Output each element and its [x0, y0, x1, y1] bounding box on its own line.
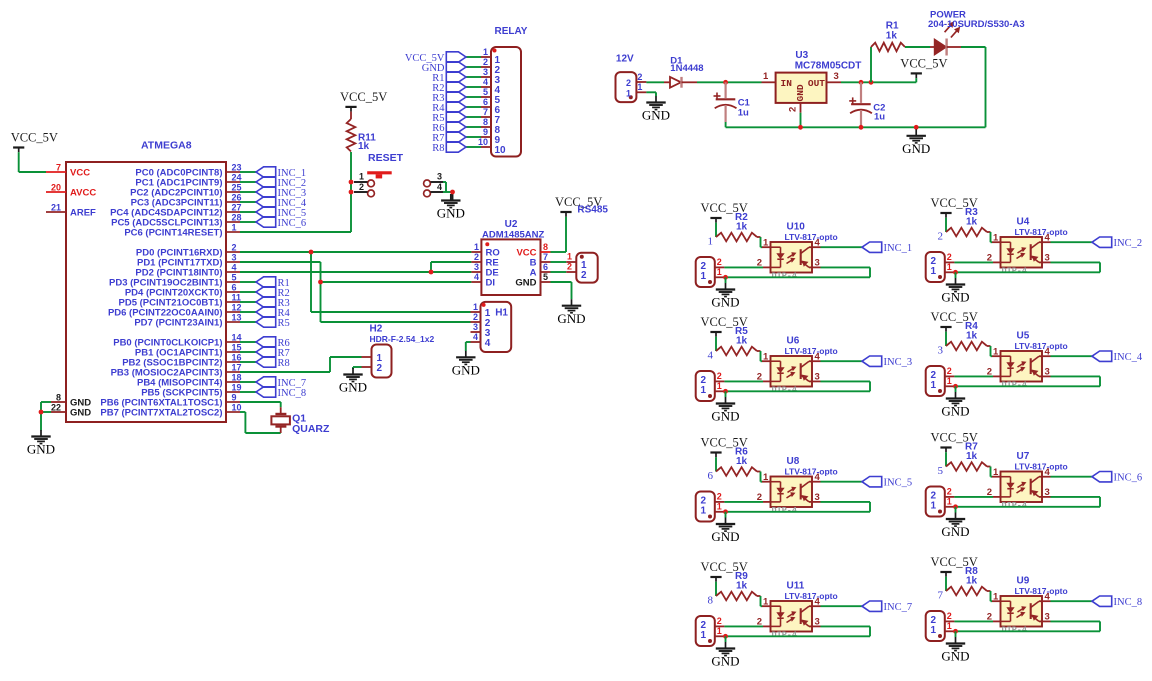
net flag R2: [432, 82, 466, 94]
ground symbol at U4: [941, 278, 969, 305]
svg-text:13: 13: [232, 313, 242, 323]
svg-text:2: 2: [567, 262, 572, 272]
svg-text:GND: GND: [902, 141, 930, 156]
svg-text:GND: GND: [711, 529, 739, 544]
wire net R2 to RELAY pin 4: [466, 86, 481, 88]
svg-text:8: 8: [708, 595, 714, 607]
net flag R8: [256, 357, 290, 369]
pin 23 PC0 of U1: [135, 163, 241, 179]
svg-text:3: 3: [815, 492, 820, 503]
pin 3 of U10: [812, 258, 821, 269]
svg-text:4: 4: [815, 237, 821, 248]
pin 2 RE of U2: [471, 252, 498, 269]
wire net R8 to RELAY pin 10: [466, 146, 481, 148]
pin 4 of H1: [471, 332, 491, 349]
svg-text:3: 3: [1045, 487, 1050, 498]
wire VCC to R3: [945, 218, 947, 232]
wire VCC to R4: [945, 332, 947, 346]
svg-text:MC78M05CDT: MC78M05CDT: [795, 60, 862, 71]
wire U1 to net flag R1: [240, 281, 256, 283]
wire U9 pin4 to net flag INC_8: [1051, 600, 1093, 602]
junction at C2: [859, 80, 864, 85]
svg-text:VCC_5V: VCC_5V: [11, 131, 58, 145]
pin 1 of U8: [762, 472, 771, 483]
svg-text:DIP-4: DIP-4: [772, 630, 798, 640]
net flag R5: [256, 317, 290, 329]
wire net R5 to RELAY pin 7: [466, 116, 481, 118]
svg-text:1k: 1k: [966, 451, 978, 462]
svg-text:GND: GND: [941, 524, 969, 539]
pin 3 of U11: [812, 617, 821, 628]
pin 15 PB1 of U1: [135, 343, 242, 359]
wire R3 to U4 pin1: [991, 232, 993, 242]
wire H1 pin2 branch: [321, 321, 471, 323]
svg-text:3: 3: [1045, 367, 1050, 378]
wire U2 B to RS485 pin1: [551, 261, 567, 263]
svg-text:DIP-4: DIP-4: [772, 385, 798, 395]
pin 7 B of U2: [530, 252, 551, 269]
svg-text:2: 2: [232, 243, 237, 253]
resistor R2 1k: [716, 212, 761, 241]
power flag VCC_5V at R5: [701, 315, 748, 337]
wire U11 pin3 loop: [726, 626, 871, 636]
svg-text:1u: 1u: [738, 107, 749, 118]
optocoupler U9 LTV-817-opto body: [1001, 576, 1068, 636]
svg-text:1k: 1k: [966, 576, 978, 587]
pin 4 of U4: [1042, 232, 1051, 243]
U5 internal LED: [1001, 356, 1014, 376]
wire U1 to net flag INC_3: [240, 191, 256, 193]
U11 light arrows: [787, 612, 796, 623]
svg-text:19: 19: [232, 383, 242, 393]
input connector at U10 body: [696, 257, 715, 287]
pin 1 of input connector at U4: [945, 262, 956, 272]
wire GND pins to ground: [41, 402, 51, 431]
net flag R4: [432, 102, 466, 114]
pin 3 of U8: [812, 492, 821, 503]
svg-text:1: 1: [763, 596, 769, 607]
wire VCC to R5: [715, 337, 717, 351]
svg-text:21: 21: [51, 203, 61, 213]
ground rail wire: [726, 126, 986, 128]
wire PB3 to H2 pin1: [240, 357, 362, 372]
svg-text:11: 11: [232, 293, 242, 303]
junction switch pin 2: [349, 190, 354, 195]
U6 internal LED: [771, 361, 784, 381]
svg-text:17: 17: [232, 363, 242, 373]
pin 1 of input connector at U10: [715, 267, 726, 277]
svg-text:1: 1: [947, 262, 952, 272]
power flag VCC_5V (top left): [11, 131, 58, 153]
junction at U7 ground: [953, 504, 958, 509]
svg-text:1k: 1k: [886, 30, 898, 41]
svg-text:4: 4: [474, 272, 479, 282]
svg-text:4: 4: [437, 182, 442, 192]
svg-text:QUARZ: QUARZ: [292, 423, 330, 435]
svg-text:R8: R8: [278, 358, 290, 369]
wire U1 to net flag R7: [240, 351, 256, 353]
power flag VCC_5V at R7: [931, 431, 978, 453]
svg-text:DIP-4: DIP-4: [1002, 625, 1028, 635]
resistor R4 1k: [946, 321, 991, 350]
svg-text:4: 4: [485, 338, 491, 349]
svg-text:GND: GND: [795, 84, 806, 101]
U11 internal LED: [771, 606, 784, 626]
wire connector pin2 to U6 pin2: [724, 380, 763, 382]
svg-text:7: 7: [483, 107, 488, 117]
pin 10 PB7 of U1: [100, 403, 241, 419]
pin 1 of RS485: [566, 252, 576, 263]
svg-text:8: 8: [543, 242, 548, 252]
wire 12V pin2 to D1: [646, 81, 664, 83]
wire U1 to net flag R2: [240, 291, 256, 293]
svg-text:15: 15: [232, 343, 242, 353]
svg-text:3: 3: [483, 67, 488, 77]
svg-text:1k: 1k: [358, 141, 370, 152]
wire junction to ground at U10: [725, 277, 727, 283]
junction at U9 ground: [953, 629, 958, 634]
resistor R7 1k: [946, 442, 991, 471]
wire junction to ground at U7: [955, 507, 957, 513]
wire PC6/RESET net: [240, 152, 351, 232]
svg-text:ADM1485ANZ: ADM1485ANZ: [482, 230, 544, 241]
pin 2 of input connector at U6: [715, 371, 725, 381]
svg-text:1: 1: [232, 223, 237, 233]
wire connector pin2 to U8 pin2: [724, 501, 763, 503]
pin 1 of U10: [762, 237, 771, 248]
svg-text:10: 10: [232, 403, 242, 413]
pin 3 of U9: [1042, 612, 1051, 623]
svg-text:3: 3: [437, 172, 442, 182]
ground symbol at U11: [711, 642, 739, 669]
svg-text:3: 3: [815, 258, 820, 269]
wire U1 to net flag R4: [240, 311, 256, 313]
pin 1 of U6: [762, 351, 771, 362]
pin 2 of U10: [757, 258, 771, 269]
svg-text:2: 2: [483, 57, 488, 67]
wire junction to ground at U11: [725, 636, 727, 642]
pin 17 PB3 of U1: [111, 363, 242, 379]
svg-text:INC_8: INC_8: [278, 388, 307, 399]
svg-text:GND: GND: [515, 278, 536, 289]
pin 4 of U5: [1042, 346, 1051, 357]
power flag VCC_5V at R2: [701, 201, 748, 223]
junction switch pins 3-4: [450, 190, 455, 195]
svg-text:1: 1: [763, 472, 769, 483]
svg-text:RS485: RS485: [577, 205, 608, 216]
U6 phototransistor: [801, 361, 812, 381]
optocoupler U6 LTV-817-opto body: [771, 336, 838, 396]
wire net R4 to RELAY pin 6: [466, 106, 481, 108]
ground symbol at H2: [339, 368, 367, 395]
wire R6 to U8 pin1: [761, 472, 763, 482]
svg-text:14: 14: [232, 333, 242, 343]
svg-text:2: 2: [788, 107, 799, 112]
pin 27 PC4 of U1: [110, 203, 241, 219]
wire U1 to net flag INC_1: [240, 171, 256, 173]
ground symbol at U9: [941, 637, 969, 664]
svg-text:LTV-817-opto: LTV-817-opto: [785, 466, 838, 476]
U8 phototransistor: [801, 482, 812, 502]
svg-text:4: 4: [1045, 591, 1051, 602]
svg-text:RESET: RESET: [368, 152, 404, 164]
pin 1 RO of U2: [471, 242, 499, 259]
svg-text:3: 3: [1045, 253, 1050, 264]
pin 4 of U7: [1042, 467, 1051, 478]
resistor R11 1k: [347, 112, 377, 152]
junction at U11 ground: [723, 634, 728, 639]
svg-text:2: 2: [947, 611, 952, 621]
input connector at U8 body: [696, 492, 715, 522]
svg-text:GND: GND: [70, 407, 91, 418]
svg-text:2: 2: [581, 270, 587, 281]
svg-text:GND: GND: [437, 206, 465, 221]
svg-text:1k: 1k: [736, 581, 748, 592]
junction DE/RE: [429, 270, 434, 275]
wire U3 OUT to VCC_5V: [841, 81, 916, 83]
svg-text:1: 1: [993, 232, 999, 243]
wire net R7 to RELAY pin 9: [466, 136, 481, 138]
pin 4 of U6: [812, 351, 821, 362]
wire VCC to R6: [715, 457, 717, 471]
svg-text:R8: R8: [432, 143, 444, 154]
junction ground tap at rail: [914, 125, 919, 130]
power flag VCC_5V at R6: [701, 436, 748, 458]
net flag INC_8: [1092, 596, 1142, 608]
diode D1 1N4448: [664, 56, 704, 88]
wire U10 pin3 loop: [726, 267, 871, 277]
pin 26 PC3 of U1: [131, 193, 242, 209]
svg-text:16: 16: [232, 353, 242, 363]
pin 5 GND of U2: [515, 272, 550, 289]
input connector at U6 body: [696, 371, 715, 401]
svg-text:1k: 1k: [736, 456, 748, 467]
U5 light arrows: [1017, 362, 1026, 373]
svg-text:4: 4: [483, 77, 488, 87]
U11 phototransistor: [801, 606, 812, 626]
svg-text:2: 2: [359, 182, 364, 192]
svg-text:24: 24: [232, 173, 242, 183]
svg-text:U2: U2: [505, 219, 518, 230]
svg-text:GND: GND: [711, 409, 739, 424]
pin 6 A of U2: [530, 262, 551, 279]
svg-text:INC_1: INC_1: [884, 243, 913, 254]
svg-text:25: 25: [232, 183, 242, 193]
svg-text:INC_6: INC_6: [1114, 473, 1143, 484]
svg-text:20: 20: [51, 183, 61, 193]
svg-text:1k: 1k: [966, 331, 978, 342]
ground symbol at U2: [557, 299, 585, 326]
wire D1 to U3 IN: [697, 81, 762, 83]
wire U1 to net flag R8: [240, 361, 256, 363]
net flag INC_7: [862, 601, 912, 613]
svg-text:204-10SURD/S530-A3: 204-10SURD/S530-A3: [928, 19, 1025, 30]
pin 3 of H1: [471, 322, 491, 339]
svg-text:8: 8: [483, 117, 488, 127]
svg-text:2: 2: [473, 312, 478, 322]
svg-text:3: 3: [1045, 612, 1050, 623]
pin 2 of H1: [471, 312, 491, 329]
svg-text:10: 10: [478, 137, 488, 147]
input connector at U4 body: [926, 252, 945, 282]
wire U5 pin3 loop: [956, 376, 1101, 386]
svg-text:DIP-4: DIP-4: [772, 271, 798, 281]
svg-text:GND: GND: [941, 404, 969, 419]
net flag R4: [256, 307, 291, 319]
pin 3 of U4: [1042, 253, 1051, 264]
net flag VCC_5V: [405, 52, 466, 64]
U10 light arrows: [787, 253, 796, 264]
wire RE stub from DE: [431, 262, 471, 272]
svg-text:8: 8: [56, 393, 61, 403]
resistor R5 1k: [716, 326, 761, 355]
pin 1 of U7: [992, 467, 1001, 478]
wire connector pin2 to U11 pin2: [724, 625, 763, 627]
svg-text:PD7 (PCINT23AIN1): PD7 (PCINT23AIN1): [134, 317, 222, 328]
svg-text:2: 2: [626, 78, 631, 88]
ground symbol at U8: [711, 518, 739, 545]
svg-text:7: 7: [56, 163, 61, 173]
U5 phototransistor: [1031, 356, 1042, 376]
svg-text:1: 1: [993, 467, 999, 478]
wire VCC_5V to pin 7: [19, 152, 46, 172]
input connector at U5 body: [926, 366, 945, 396]
svg-text:7: 7: [543, 252, 548, 262]
svg-text:4: 4: [232, 263, 237, 273]
svg-text:5: 5: [543, 272, 548, 282]
wire connector pin2 to U4 pin2: [954, 261, 993, 263]
U4 light arrows: [1017, 248, 1026, 259]
svg-text:INC_3: INC_3: [884, 357, 913, 368]
pin 1 of input connector at U11: [715, 626, 726, 636]
svg-text:5: 5: [938, 465, 944, 477]
svg-text:1: 1: [701, 271, 707, 282]
svg-text:1: 1: [359, 172, 364, 182]
svg-text:1: 1: [483, 47, 488, 57]
wire U8 pin3 loop: [726, 502, 871, 512]
wire U1 to net flag INC_8: [240, 391, 256, 393]
svg-text:28: 28: [232, 213, 242, 223]
net flag GND: [422, 62, 466, 74]
net flag R1: [432, 72, 466, 84]
resistor R1 1k: [871, 21, 905, 52]
wire U7 pin3 loop: [956, 497, 1101, 507]
wire VCC to R8: [945, 577, 947, 591]
svg-text:LTV-817-opto: LTV-817-opto: [785, 232, 838, 242]
svg-text:INC_6: INC_6: [278, 218, 307, 229]
junction at U5 ground: [953, 384, 958, 389]
pin 2 of U8: [757, 492, 771, 503]
U9 internal LED: [1001, 601, 1014, 621]
svg-text:4: 4: [815, 472, 821, 483]
power flag VCC_5V at U3 output: [900, 57, 947, 79]
pin 20 AVCC of U1: [46, 183, 96, 199]
svg-text:4: 4: [1045, 467, 1051, 478]
svg-text:2: 2: [938, 231, 944, 243]
pin 22 GND of U1: [51, 403, 91, 419]
svg-text:GND: GND: [711, 654, 739, 669]
wire R1 branch up: [870, 47, 872, 82]
connector RELAY body: [491, 26, 528, 157]
svg-text:9: 9: [232, 393, 237, 403]
junction at R1 branch: [869, 80, 874, 85]
pin 2 of input connector at U4: [945, 252, 955, 262]
svg-text:1: 1: [947, 497, 952, 507]
wire DI to U2: [321, 281, 472, 283]
pin 14 PB0 of U1: [113, 333, 241, 349]
svg-text:GND: GND: [339, 380, 367, 395]
svg-text:1: 1: [701, 630, 707, 641]
pin 4 of RELAY connector: [481, 77, 501, 96]
svg-text:GND: GND: [452, 363, 480, 378]
led POWER 204-10SURD/S530-A3: [928, 9, 1025, 55]
svg-text:4: 4: [1045, 232, 1051, 243]
net flag INC_7: [256, 377, 306, 389]
svg-text:2: 2: [947, 366, 952, 376]
junction at U4 ground: [953, 270, 958, 275]
wire U11 pin4 to net flag INC_7: [821, 605, 863, 607]
svg-text:LTV-817-opto: LTV-817-opto: [1015, 227, 1068, 237]
wire U1 to net flag INC_4: [240, 201, 256, 203]
svg-text:1: 1: [717, 626, 722, 636]
wire connector pin2 to U9 pin2: [954, 620, 993, 622]
svg-text:LTV-817-opto: LTV-817-opto: [1015, 341, 1068, 351]
svg-text:PC6 (PCINT14RESET): PC6 (PCINT14RESET): [124, 227, 222, 238]
svg-text:INC_7: INC_7: [884, 602, 913, 613]
svg-text:6: 6: [543, 262, 548, 272]
svg-text:1: 1: [701, 385, 707, 396]
junction PD1/DI: [318, 280, 323, 285]
junction PD0/H1: [309, 250, 314, 255]
svg-text:1: 1: [637, 82, 642, 92]
svg-text:GND: GND: [941, 290, 969, 305]
wire H1 pin1 branch: [311, 252, 471, 312]
resistor R6 1k: [716, 447, 761, 476]
svg-text:23: 23: [232, 163, 242, 173]
svg-text:1: 1: [993, 591, 999, 602]
pin 28 PC5 of U1: [111, 213, 241, 229]
wire R8 to U9 pin1: [991, 591, 993, 601]
svg-text:VCC_5V: VCC_5V: [340, 90, 387, 104]
wire junction to ground at U6: [725, 391, 727, 397]
svg-text:1: 1: [717, 381, 722, 391]
wire 12V pin1 to ground: [646, 92, 656, 96]
svg-text:DIP-4: DIP-4: [1002, 266, 1028, 276]
input connector at U7 body: [926, 487, 945, 517]
power flag VCC_5V at R4: [931, 310, 978, 332]
wire PB7 to Q1: [240, 412, 281, 433]
pin 3 of U5: [1042, 367, 1051, 378]
wire net VCC_5V to RELAY pin 1: [466, 56, 481, 58]
wire H1 pin4 to ground: [466, 342, 471, 351]
wire H2 pin2 to ground: [353, 367, 362, 369]
U8 internal LED: [771, 482, 784, 502]
wire U2 A to RS485 pin2: [551, 271, 567, 273]
svg-text:1: 1: [567, 252, 572, 262]
pin 2 of RELAY connector: [481, 57, 501, 76]
resistor R9 1k: [716, 571, 761, 600]
pin 1 of H2: [362, 356, 372, 358]
wire PB6 to Q1: [240, 402, 281, 407]
svg-text:3: 3: [938, 345, 944, 357]
svg-text:4: 4: [708, 350, 714, 362]
wire net GND to RELAY pin 2: [466, 66, 481, 68]
svg-text:2: 2: [717, 257, 722, 267]
net flag INC_2: [1092, 237, 1142, 249]
junction at U6 ground: [723, 389, 728, 394]
pin 4 PD2 of U1: [135, 263, 240, 279]
connector RS485 body: [576, 205, 608, 283]
